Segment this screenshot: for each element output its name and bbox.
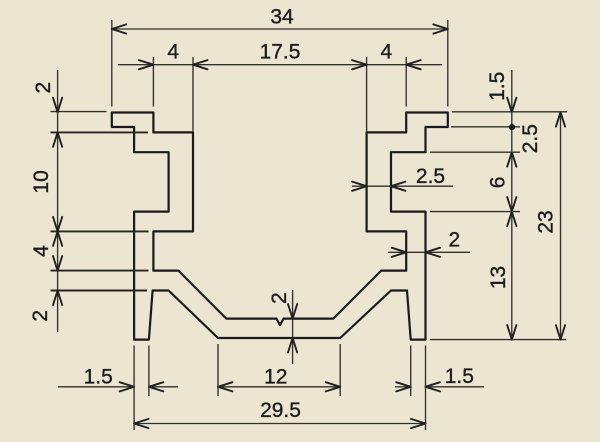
- dim 34: [112, 28, 448, 30]
- left extension line y=270.6: [51, 270, 149, 272]
- right extension line y=111.8 (top): [452, 111, 567, 113]
- dim 2 arm thickness: [388, 251, 470, 253]
- left extension line y=111.6: [51, 111, 107, 113]
- svg-text:12: 12: [264, 366, 287, 389]
- bottom extension x=148.9: [148, 346, 150, 397]
- dim 1.5 top-right: [507, 98, 516, 113]
- bottom extension x=341.6: [339, 344, 341, 396]
- extension line 4 right outer: [405, 57, 407, 107]
- left extension line y=231.4: [51, 230, 149, 232]
- dim 17.5: [352, 60, 367, 69]
- dim 2 left-bottom: [53, 291, 62, 306]
- dim 4 left: [118, 64, 442, 66]
- right extension line y=126.5: [451, 126, 520, 128]
- svg-text:23: 23: [535, 210, 558, 233]
- bottom extension x=218: [217, 344, 219, 396]
- svg-text:10: 10: [30, 170, 53, 193]
- dim 2.5 horizontal (notch wall): [352, 185, 453, 187]
- right dim line x=511.8: [511, 70, 513, 340]
- extension line 17.5 left: [192, 57, 194, 132]
- svg-text:17.5: 17.5: [260, 40, 301, 63]
- bottom extension x=410.7: [410, 346, 412, 397]
- extension line 34 right: [447, 20, 449, 107]
- dim 4 right: [406, 60, 421, 69]
- dim 10 left: [53, 217, 62, 232]
- dim 2 top-left: [53, 98, 62, 113]
- right extension line y=152.2: [430, 151, 520, 153]
- extension line 17.5 right: [366, 57, 368, 132]
- svg-text:2.5: 2.5: [416, 165, 445, 188]
- svg-text:4: 4: [30, 245, 53, 257]
- dim 1.5 bottom-left: [58, 386, 134, 388]
- svg-text:2.5: 2.5: [519, 124, 542, 153]
- extension line 4 left outer: [152, 57, 154, 107]
- svg-text:2: 2: [449, 229, 461, 252]
- dim 6 right: [507, 197, 516, 212]
- svg-text:1.5: 1.5: [84, 365, 113, 388]
- dim 29.5: [134, 423, 425, 425]
- extension line 34 left: [111, 20, 113, 107]
- bottom extension x=134.1: [133, 346, 135, 431]
- svg-text:1.5: 1.5: [486, 72, 509, 101]
- svg-text:2: 2: [32, 82, 55, 94]
- dim 12: [218, 386, 340, 388]
- dim 23: [560, 112, 562, 339]
- svg-text:4: 4: [167, 40, 179, 63]
- left extension line y=290.5: [51, 290, 148, 292]
- profile outline: [112, 113, 448, 340]
- svg-text:4: 4: [381, 40, 393, 63]
- dim 1.5 bottom-right: [395, 386, 411, 388]
- svg-text:29.5: 29.5: [260, 399, 301, 422]
- left extension line y=132.4: [51, 131, 149, 133]
- dim 2 bottom web: [292, 290, 294, 319]
- dim 4 left-lower: [53, 256, 62, 271]
- svg-text:2: 2: [29, 310, 52, 322]
- svg-text:6: 6: [487, 177, 510, 189]
- left dim line: [57, 70, 59, 332]
- bottom extension x=425.5: [425, 346, 427, 431]
- dim 2.5 right vertical: [507, 152, 516, 167]
- svg-text:34: 34: [270, 6, 294, 29]
- svg-text:13: 13: [487, 266, 510, 289]
- svg-text:2: 2: [268, 292, 291, 304]
- svg-text:1.5: 1.5: [445, 365, 474, 388]
- dim 13 right: [507, 325, 516, 340]
- right extension line y=339.6 (bottom): [430, 339, 566, 341]
- right extension line y=211.6: [430, 211, 520, 213]
- reference dot 2.5: [509, 124, 515, 130]
